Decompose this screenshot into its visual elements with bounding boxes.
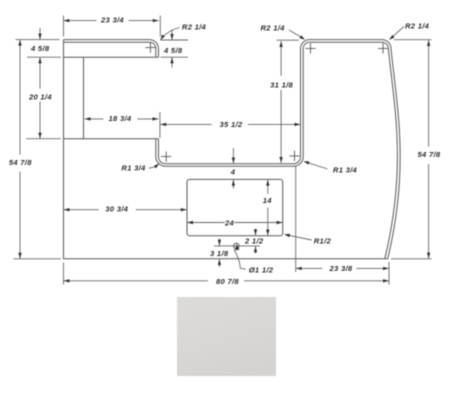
svg-text:R2 1/4: R2 1/4 [261,23,286,32]
svg-text:R2 1/4: R2 1/4 [405,21,430,30]
arrowhead dim 14 top [266,180,269,186]
arrowhead dim 2 1/2 top [254,229,257,235]
arrowhead dim 54 7/8 R top [427,40,430,46]
grommet hole dia 1 1/2 [234,243,240,249]
extension line 20 1/4 top [27,56,61,58]
top bar underside seam [64,56,159,58]
inner step edge [64,138,159,140]
svg-text:R2 1/4: R2 1/4 [182,23,207,32]
svg-text:30 3/4: 30 3/4 [105,205,128,214]
leader R1 3/4 right [305,162,328,169]
arrowhead dim 31 1/8 bottom [279,157,282,163]
arrowhead dim 35 1/2 right [295,123,301,126]
arrowhead dim 18 3/4 right [153,117,159,120]
arrowhead dim 4 5/8 R top [170,34,173,40]
arrowhead dim 20 1/4 top [38,57,41,63]
center mark R2 1/4 right panel left [305,43,315,53]
dim line 23 3/8 [296,267,389,269]
extension line 4 5/8 right bottom [161,56,189,58]
dim line 2 1/2 [255,229,257,254]
arrowhead dim 31 1/8 top [279,41,282,47]
leader R2 1/4 top-right [390,27,404,39]
extension line 4 5/8 right top [161,39,189,41]
arrowhead dim 4 5/8 left [38,34,41,40]
desk top outer perimeter [64,40,401,259]
arrowhead dim 54 7/8 L top [18,40,21,46]
keyboard cutout rectangle R1/2 [187,179,283,235]
dim line 18 3/4 [85,118,159,120]
extension line 23 3/8 left [295,167,297,273]
extension line 54 7/8 left top [16,39,60,41]
extension line 54 7/8 right top [394,39,432,41]
leader R1 3/4 left [149,167,155,168]
leader R2 1/4 top-left [161,28,179,39]
arrowhead leader R1 3/4 L [154,163,160,168]
svg-text:4 5/8: 4 5/8 [30,44,50,53]
dim line 4 5/8 right [171,30,173,68]
svg-text:20 1/4: 20 1/4 [28,93,52,102]
arrowhead dim 18 3/4 left [85,117,91,120]
svg-text:18 3/4: 18 3/4 [109,114,132,123]
arrowhead dim 2 1/2 bottom [254,246,257,252]
arrowhead leader R2 1/4 mid [299,35,305,40]
arrowhead dim 23 3/4 right [153,19,159,22]
svg-text:4 5/8: 4 5/8 [163,46,183,55]
arrowhead dim 14 bottom [266,230,269,236]
extension line 35 1/2 left [159,112,161,138]
leader dia 1 1/2 [234,250,246,270]
arrowhead dim 23 3/8 left [296,267,302,270]
dim line 20 1/4 [39,57,41,138]
leader R2 1/4 mid [289,30,304,39]
dim line 54 7/8 left [19,40,21,259]
arrowhead dim 80 7/8 left [64,279,70,282]
svg-text:35 1/2: 35 1/2 [220,120,243,129]
dim line 35 1/2 [160,123,300,125]
left column seam [83,57,85,139]
svg-text:14: 14 [263,196,273,205]
center mark R2 1/4 right panel right [378,43,388,53]
svg-text:R1 3/4: R1 3/4 [333,166,358,175]
arrowhead leader dia 1 1/2 [235,244,239,251]
material swatch [177,297,276,376]
svg-text:24: 24 [224,218,235,227]
extension line 20 1/4 bottom [26,138,61,140]
svg-text:54 7/8: 54 7/8 [418,150,441,159]
dim line 4 [232,148,234,189]
svg-text:23 3/4: 23 3/4 [100,16,124,25]
arrowhead dim 23 3/4 left [64,19,70,22]
extension line 80 7/8 left [63,263,65,285]
dim line 54 7/8 right [428,40,430,258]
extension line 23 3/4 right [159,16,161,37]
svg-text:R1 3/4: R1 3/4 [121,164,146,173]
center mark R1 3/4 right fillet [289,151,299,161]
grommet centerline [214,245,260,247]
leader R1/2 [286,235,312,240]
arrowhead dim 23 3/8 right [383,267,389,270]
extension line 23 3/4 left [63,16,65,37]
dim line 3 1/8 [218,239,220,268]
arrowhead leader R1/2 [284,234,290,237]
arrowhead leader R2 1/4 TR [389,35,395,40]
center mark R2 1/4 bar corner [145,43,155,53]
arrowhead leader R1 3/4 R [303,161,309,164]
extension line 54 7/8 left bottom [14,258,62,260]
arrowhead leader R2 1/4 TL [160,35,165,41]
svg-text:23 3/8: 23 3/8 [329,264,353,273]
arrowhead dim 54 7/8 L bottom [18,253,21,259]
arrowhead dim 30 3/4 right [181,208,187,211]
arrowhead dim 24 left [187,221,193,224]
desk top edge profile inner lines [64,42,398,258]
arrowhead dim 4 top [232,158,235,164]
arrowhead dim 4 bottom [232,180,235,186]
extension line 54 7/8 right bottom [391,258,432,260]
arrowhead dim 54 7/8 R bottom [427,253,430,259]
arrowhead dim 3 1/8 bottom [218,259,221,265]
svg-text:4: 4 [230,168,236,177]
svg-text:2 1/2: 2 1/2 [244,237,264,246]
dim line 24 [187,222,282,224]
arrowhead dim 30 3/4 left [64,208,70,211]
arrowhead dim 80 7/8 right [383,279,389,282]
svg-text:80 7/8: 80 7/8 [216,277,239,286]
dim line 80 7/8 [64,280,389,282]
dim line 4 5/8 left [39,28,41,39]
arrowhead dim 24 right [277,221,283,224]
dim line 31 1/8 [280,41,282,163]
arrowhead dim 35 1/2 left [160,123,166,126]
arrowhead dim 20 1/4 bottom [38,133,41,139]
extension line 31 1/8 top [277,39,300,41]
center mark R1 3/4 left fillet [161,152,171,162]
svg-text:Ø1 1/2: Ø1 1/2 [249,265,274,274]
svg-text:R1/2: R1/2 [314,237,332,246]
dim line 30 3/4 [64,209,187,211]
svg-text:3 1/8: 3 1/8 [210,249,229,258]
svg-text:31 1/8: 31 1/8 [270,80,293,89]
arrowhead dim 4 5/8 R bottom [170,57,173,63]
extension line 80 7/8 right [388,262,390,285]
svg-text:54 7/8: 54 7/8 [9,158,32,167]
dim line 14 [267,180,269,236]
arrowhead dim 3 1/8 top [218,240,221,246]
dim line 23 3/4 [64,20,159,22]
